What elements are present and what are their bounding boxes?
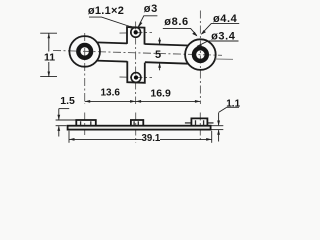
svg-text:11: 11: [44, 52, 55, 64]
svg-text:ø3: ø3: [144, 3, 158, 15]
svg-text:ø3.4: ø3.4: [211, 30, 236, 42]
svg-text:1.1: 1.1: [226, 99, 240, 110]
svg-text:ø4.4: ø4.4: [213, 13, 238, 25]
svg-text:ø1.1×2: ø1.1×2: [88, 5, 124, 17]
svg-text:5: 5: [155, 49, 161, 61]
svg-text:ø8.6: ø8.6: [164, 16, 188, 28]
svg-text:39.1: 39.1: [141, 133, 160, 144]
svg-text:16.9: 16.9: [150, 87, 171, 99]
svg-text:1.5: 1.5: [60, 95, 75, 107]
svg-text:13.6: 13.6: [100, 88, 120, 99]
